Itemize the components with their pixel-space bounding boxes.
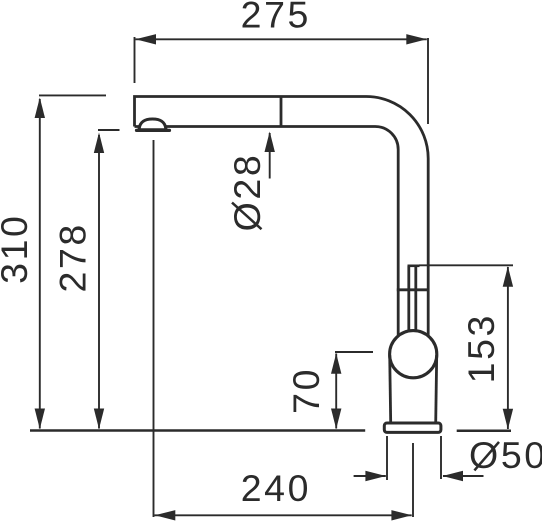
dim 153 top extension line bbox=[419, 264, 513, 266]
arrowhead 70 bottom bbox=[331, 409, 341, 430]
dim 240 left extension bbox=[153, 140, 155, 517]
svg-text:240: 240 bbox=[241, 467, 311, 509]
dim 70 top extension bbox=[335, 351, 373, 353]
aerator base line bbox=[137, 129, 170, 132]
dim 310 top extension bbox=[39, 94, 106, 96]
arrowhead 153 bottom bbox=[503, 409, 513, 430]
dim 278 line bbox=[98, 135, 100, 429]
svg-text:70: 70 bbox=[285, 367, 327, 414]
arrowhead 240 left bbox=[155, 510, 176, 520]
arrowhead 310 bottom bbox=[35, 409, 45, 430]
svg-text:275: 275 bbox=[241, 0, 311, 36]
base flange bbox=[384, 423, 441, 432]
pull-out rod left line bbox=[407, 266, 410, 334]
dim 275 left extension bbox=[134, 37, 136, 83]
body right side bbox=[436, 355, 437, 423]
arrowhead 310 top bbox=[35, 98, 45, 119]
dim 310 line bbox=[39, 99, 41, 429]
svg-text:O28: O28 bbox=[226, 153, 268, 232]
dim 240 right leader bbox=[412, 443, 414, 517]
dim 70 line bbox=[335, 354, 337, 429]
spout outer outline bbox=[135, 96, 429, 341]
aerator dome bbox=[139, 119, 166, 130]
arrowhead diameter-50 right bbox=[443, 471, 464, 481]
arrowhead 275 right bbox=[406, 34, 427, 44]
spout inner outline bbox=[135, 126, 399, 340]
spout divider line bbox=[280, 97, 283, 127]
dim diameter-50 left extension bbox=[386, 436, 388, 480]
dim 275 line bbox=[136, 38, 427, 40]
arrowhead 278 bottom bbox=[94, 409, 104, 430]
handle ball circle bbox=[390, 331, 437, 378]
svg-text:153: 153 bbox=[460, 313, 502, 383]
dim diameter-50 left arrow line bbox=[354, 475, 386, 477]
arrowhead 278 top bbox=[94, 133, 104, 154]
label diameter-50 slash bbox=[474, 442, 499, 471]
dim 153 line bbox=[507, 267, 509, 429]
svg-text:278: 278 bbox=[52, 222, 94, 292]
svg-text:O50: O50 bbox=[469, 434, 542, 476]
dim 240 line bbox=[155, 514, 412, 516]
dim diameter-28 arrow line bbox=[269, 133, 271, 179]
label diameter-28 slash bbox=[232, 203, 262, 230]
svg-text:310: 310 bbox=[0, 214, 35, 284]
arrowhead 240 right bbox=[391, 510, 412, 520]
joint line on body bbox=[397, 288, 430, 291]
rod top cap bbox=[408, 264, 420, 267]
arrowhead 275 left bbox=[136, 34, 157, 44]
arrowhead diameter-28 bbox=[265, 132, 275, 153]
dim 278 top extension bbox=[98, 129, 120, 131]
arrowhead diameter-50 left bbox=[365, 471, 386, 481]
body left side bbox=[390, 355, 391, 423]
dim 275 right extension bbox=[427, 38, 429, 124]
pull-out rod right line bbox=[414, 266, 417, 334]
dim diameter-50 right extension bbox=[440, 436, 442, 479]
dim diameter-50 right arrow line bbox=[443, 475, 484, 477]
arrowhead 153 top bbox=[503, 266, 513, 287]
arrowhead 70 top bbox=[331, 353, 341, 374]
baseline right segment bbox=[457, 429, 511, 432]
baseline left segment bbox=[30, 429, 365, 432]
